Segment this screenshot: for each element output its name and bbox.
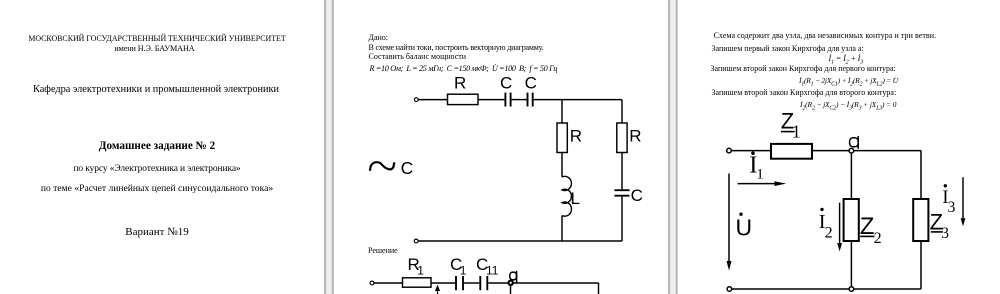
svg-text:1: 1 — [756, 167, 764, 183]
terminal bottom-left — [727, 287, 732, 292]
resistor R1 — [403, 278, 432, 287]
page gap 2 — [667, 0, 679, 294]
terminal bottom-left — [414, 239, 418, 243]
resistor R (right branch) — [617, 123, 627, 153]
current I2 arrow — [839, 203, 841, 244]
wire — [731, 150, 771, 152]
svg-text:3: 3 — [941, 225, 949, 242]
capacitor C (first series) — [505, 93, 510, 107]
capacitor C11 — [480, 276, 487, 290]
svg-text:1: 1 — [792, 122, 801, 142]
inductor L — [562, 176, 571, 216]
impedance Z3 — [913, 199, 928, 241]
wire — [464, 282, 479, 284]
wire left branch down — [561, 100, 563, 123]
current I3 label — [944, 184, 947, 187]
current I1 arrow — [738, 183, 778, 185]
wire corner down — [598, 283, 600, 294]
svg-text:1: 1 — [460, 264, 467, 278]
capacitor C1 — [456, 276, 463, 290]
node a — [509, 281, 513, 285]
svg-text:11: 11 — [486, 264, 499, 278]
svg-text:U: U — [736, 215, 753, 241]
PAGE 3 TEXT — [714, 31, 937, 40]
wire node a down — [850, 153, 852, 199]
wire — [561, 216, 563, 242]
wire Z2 down — [850, 241, 852, 287]
svg-text:2: 2 — [825, 225, 833, 242]
impedance Z3 branch top wire — [920, 151, 922, 199]
wire top to corner — [534, 99, 622, 101]
label a — [510, 271, 517, 283]
svg-text:3: 3 — [948, 199, 956, 216]
current I3 arrow — [962, 177, 964, 219]
bottom wire — [732, 288, 921, 290]
svg-text:C: C — [500, 74, 512, 93]
node bottom — [849, 287, 854, 292]
svg-text:2: 2 — [874, 230, 882, 247]
capacitor C (right branch) — [615, 190, 630, 196]
PAGE 2 TEXT — [369, 33, 389, 42]
wire — [621, 197, 623, 241]
resistor R (left branch) — [557, 123, 567, 153]
svg-text:L: L — [571, 189, 580, 208]
wire — [812, 150, 849, 152]
svg-text:R: R — [629, 126, 641, 145]
svg-text:R: R — [570, 126, 582, 145]
svg-text:C: C — [525, 74, 537, 93]
wire — [854, 150, 921, 152]
wire — [374, 282, 403, 284]
wire — [478, 99, 504, 101]
svg-text:C: C — [631, 186, 643, 205]
page gap 1 — [323, 0, 335, 294]
label U — [739, 213, 742, 216]
wire — [512, 99, 527, 101]
wire right branch down — [621, 100, 623, 123]
voltage U arrow — [728, 174, 730, 262]
node a — [849, 148, 854, 153]
terminal top-left — [727, 148, 732, 153]
impedance Z2 — [844, 199, 859, 241]
current I2 label — [820, 208, 823, 211]
terminal top-left — [414, 98, 418, 102]
svg-text:1: 1 — [417, 264, 424, 278]
resistor R (top) — [448, 94, 479, 104]
wire — [431, 282, 455, 284]
wire Z3 down — [920, 241, 922, 289]
svg-text:C: C — [401, 158, 414, 178]
wire below node a — [510, 285, 512, 294]
label a — [850, 136, 859, 149]
PAGE 1 TEXT — [0, 34, 314, 43]
source tilde symbol — [370, 162, 394, 171]
wire — [561, 153, 563, 178]
terminal left — [370, 281, 374, 285]
bottom wire — [418, 240, 622, 242]
capacitor C (second series) — [528, 93, 533, 107]
svg-text:R: R — [454, 74, 466, 93]
wire — [621, 153, 623, 190]
wire — [418, 99, 447, 101]
current arrow (cut off) — [437, 289, 439, 294]
wire — [488, 282, 598, 284]
current I1 label — [751, 151, 755, 155]
impedance Z1 — [771, 144, 812, 159]
